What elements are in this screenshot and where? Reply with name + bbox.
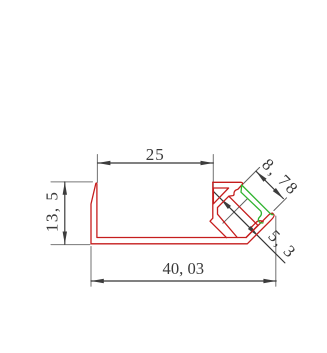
wire: extension line S1 of 5,3 dim [223, 199, 247, 223]
lower slot lip with retaining bump (red) [246, 213, 272, 237]
svg-text:5, 3: 5, 3 [264, 226, 300, 262]
wire: extension line right of 40,03 dim [275, 216, 277, 286]
arrowhead 13,5 top [63, 182, 67, 195]
slot seat recessed surface (green) [241, 185, 263, 223]
arrowhead 5,3 upper [219, 197, 231, 209]
svg-text:40, 03: 40, 03 [163, 259, 204, 278]
wire: extension line right of 25 dim [212, 155, 214, 200]
dimension 13,5 line [64, 182, 66, 244]
dimension 8,78 line [256, 171, 283, 198]
wire: extension line left of 40,03 dim [90, 247, 92, 287]
profile outer contour (red): left wall, bottom, 45-deg cut face, tip [91, 183, 274, 244]
arrowhead 5,3 lower [248, 226, 260, 238]
head top plate outer surface (red) [213, 182, 243, 185]
arrowhead 25 left [98, 161, 111, 165]
profile inner contour (red): channel floor and hollow chamber of head [97, 184, 258, 237]
dimension 5,3 line [214, 192, 285, 263]
wire: extension line top of 13,5 dim [51, 181, 93, 183]
upper slot lip with retaining bump (red) [229, 185, 242, 196]
dimension 40,03 line [91, 280, 276, 282]
svg-text:25: 25 [146, 145, 165, 164]
wire: extension line E2 of 8,78 dim [274, 198, 287, 211]
triangular hole in head top-left (red) [213, 188, 228, 204]
slot floor 45-deg surface (green) [242, 185, 273, 215]
svg-text:13, 5: 13, 5 [42, 191, 61, 233]
arrowhead 40,03 left [91, 279, 104, 283]
arrowhead 8,78 lower [273, 188, 285, 200]
arrowhead 25 right [201, 161, 214, 165]
lower lip tooth (red) [252, 221, 263, 227]
head left face with drip tooth and apron (red) [210, 182, 227, 237]
wire: extension line bottom of 13,5 dim [51, 244, 90, 246]
wire: extension line E1 of 8,78 dim [238, 167, 259, 188]
arrowhead 40,03 right [263, 279, 276, 283]
arrowhead 13,5 bottom [63, 232, 67, 245]
wire: extension line left of 25 dim [96, 155, 98, 183]
arrowhead 8,78 upper [254, 170, 266, 182]
svg-text:8, 78: 8, 78 [258, 155, 303, 200]
dimension 25 line [98, 162, 214, 164]
